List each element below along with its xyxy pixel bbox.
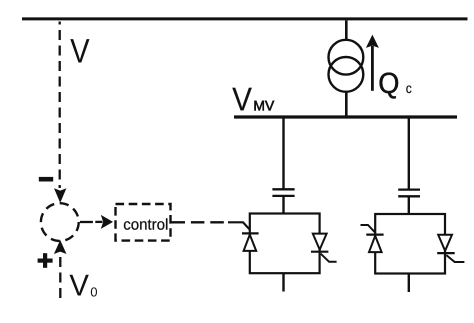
wire: branch 1 drop from MV bus — [282, 119, 284, 190]
wire: stem to MV bus — [345, 92, 348, 117]
label V0_V — [70, 275, 89, 296]
arrowhead into summing junction (up) — [54, 240, 67, 254]
summing junction circle — [41, 203, 79, 241]
thyristor Q1a (left, conducting up) — [242, 232, 259, 234]
label Qc_sub — [406, 86, 411, 94]
MV bus — [234, 115, 457, 118]
source circle upper — [329, 40, 364, 75]
thyristor Q2b (right, conducting down) — [438, 235, 452, 251]
control block — [116, 204, 171, 241]
label control — [124, 218, 167, 229]
wire: control output dashed line — [172, 221, 229, 223]
capacitor C1 — [272, 188, 294, 190]
top HV bus — [22, 17, 468, 20]
Qc flow arrow — [371, 46, 374, 91]
label VMV_V — [232, 88, 252, 111]
minus sign at summing input — [39, 177, 53, 182]
label VMV_sub — [255, 101, 275, 111]
thyristor valve loop 2 — [375, 214, 445, 274]
label V0_sub — [91, 287, 97, 296]
wire: gate lead of thyristor Q1a — [228, 222, 250, 229]
wire: C2 to valve loop — [408, 196, 410, 214]
wire: gate lead of Q2b — [446, 255, 464, 262]
arrowhead into summing junction (down) — [54, 188, 66, 203]
wire: V measurement dashed drop — [59, 22, 61, 189]
wire: branch 2 drop from MV bus — [408, 119, 410, 190]
source circle lower — [329, 57, 364, 92]
wire: stem from top bus — [345, 21, 348, 42]
thyristor valve loop 1 — [250, 214, 320, 274]
arrowhead into control block — [95, 221, 102, 223]
wire: gate lead of Q1b — [321, 254, 337, 262]
wire: V0 dashed reference input — [59, 257, 61, 298]
wire: branch 2 bottom stub — [408, 273, 410, 292]
label Q — [380, 73, 399, 99]
thyristor Q1b (right, conducting down) — [313, 234, 327, 250]
thyristor Q2a (left, conducting up) — [366, 234, 383, 236]
wire: C1 to valve loop — [282, 196, 284, 214]
capacitor C2 — [398, 188, 420, 190]
wire: branch 1 bottom stub — [282, 273, 284, 292]
wire: gate lead of thyristor Q2a — [361, 225, 375, 232]
wire: summing output dash — [80, 221, 98, 223]
plus sign at summing input — [38, 259, 53, 263]
label V_top — [70, 39, 89, 62]
